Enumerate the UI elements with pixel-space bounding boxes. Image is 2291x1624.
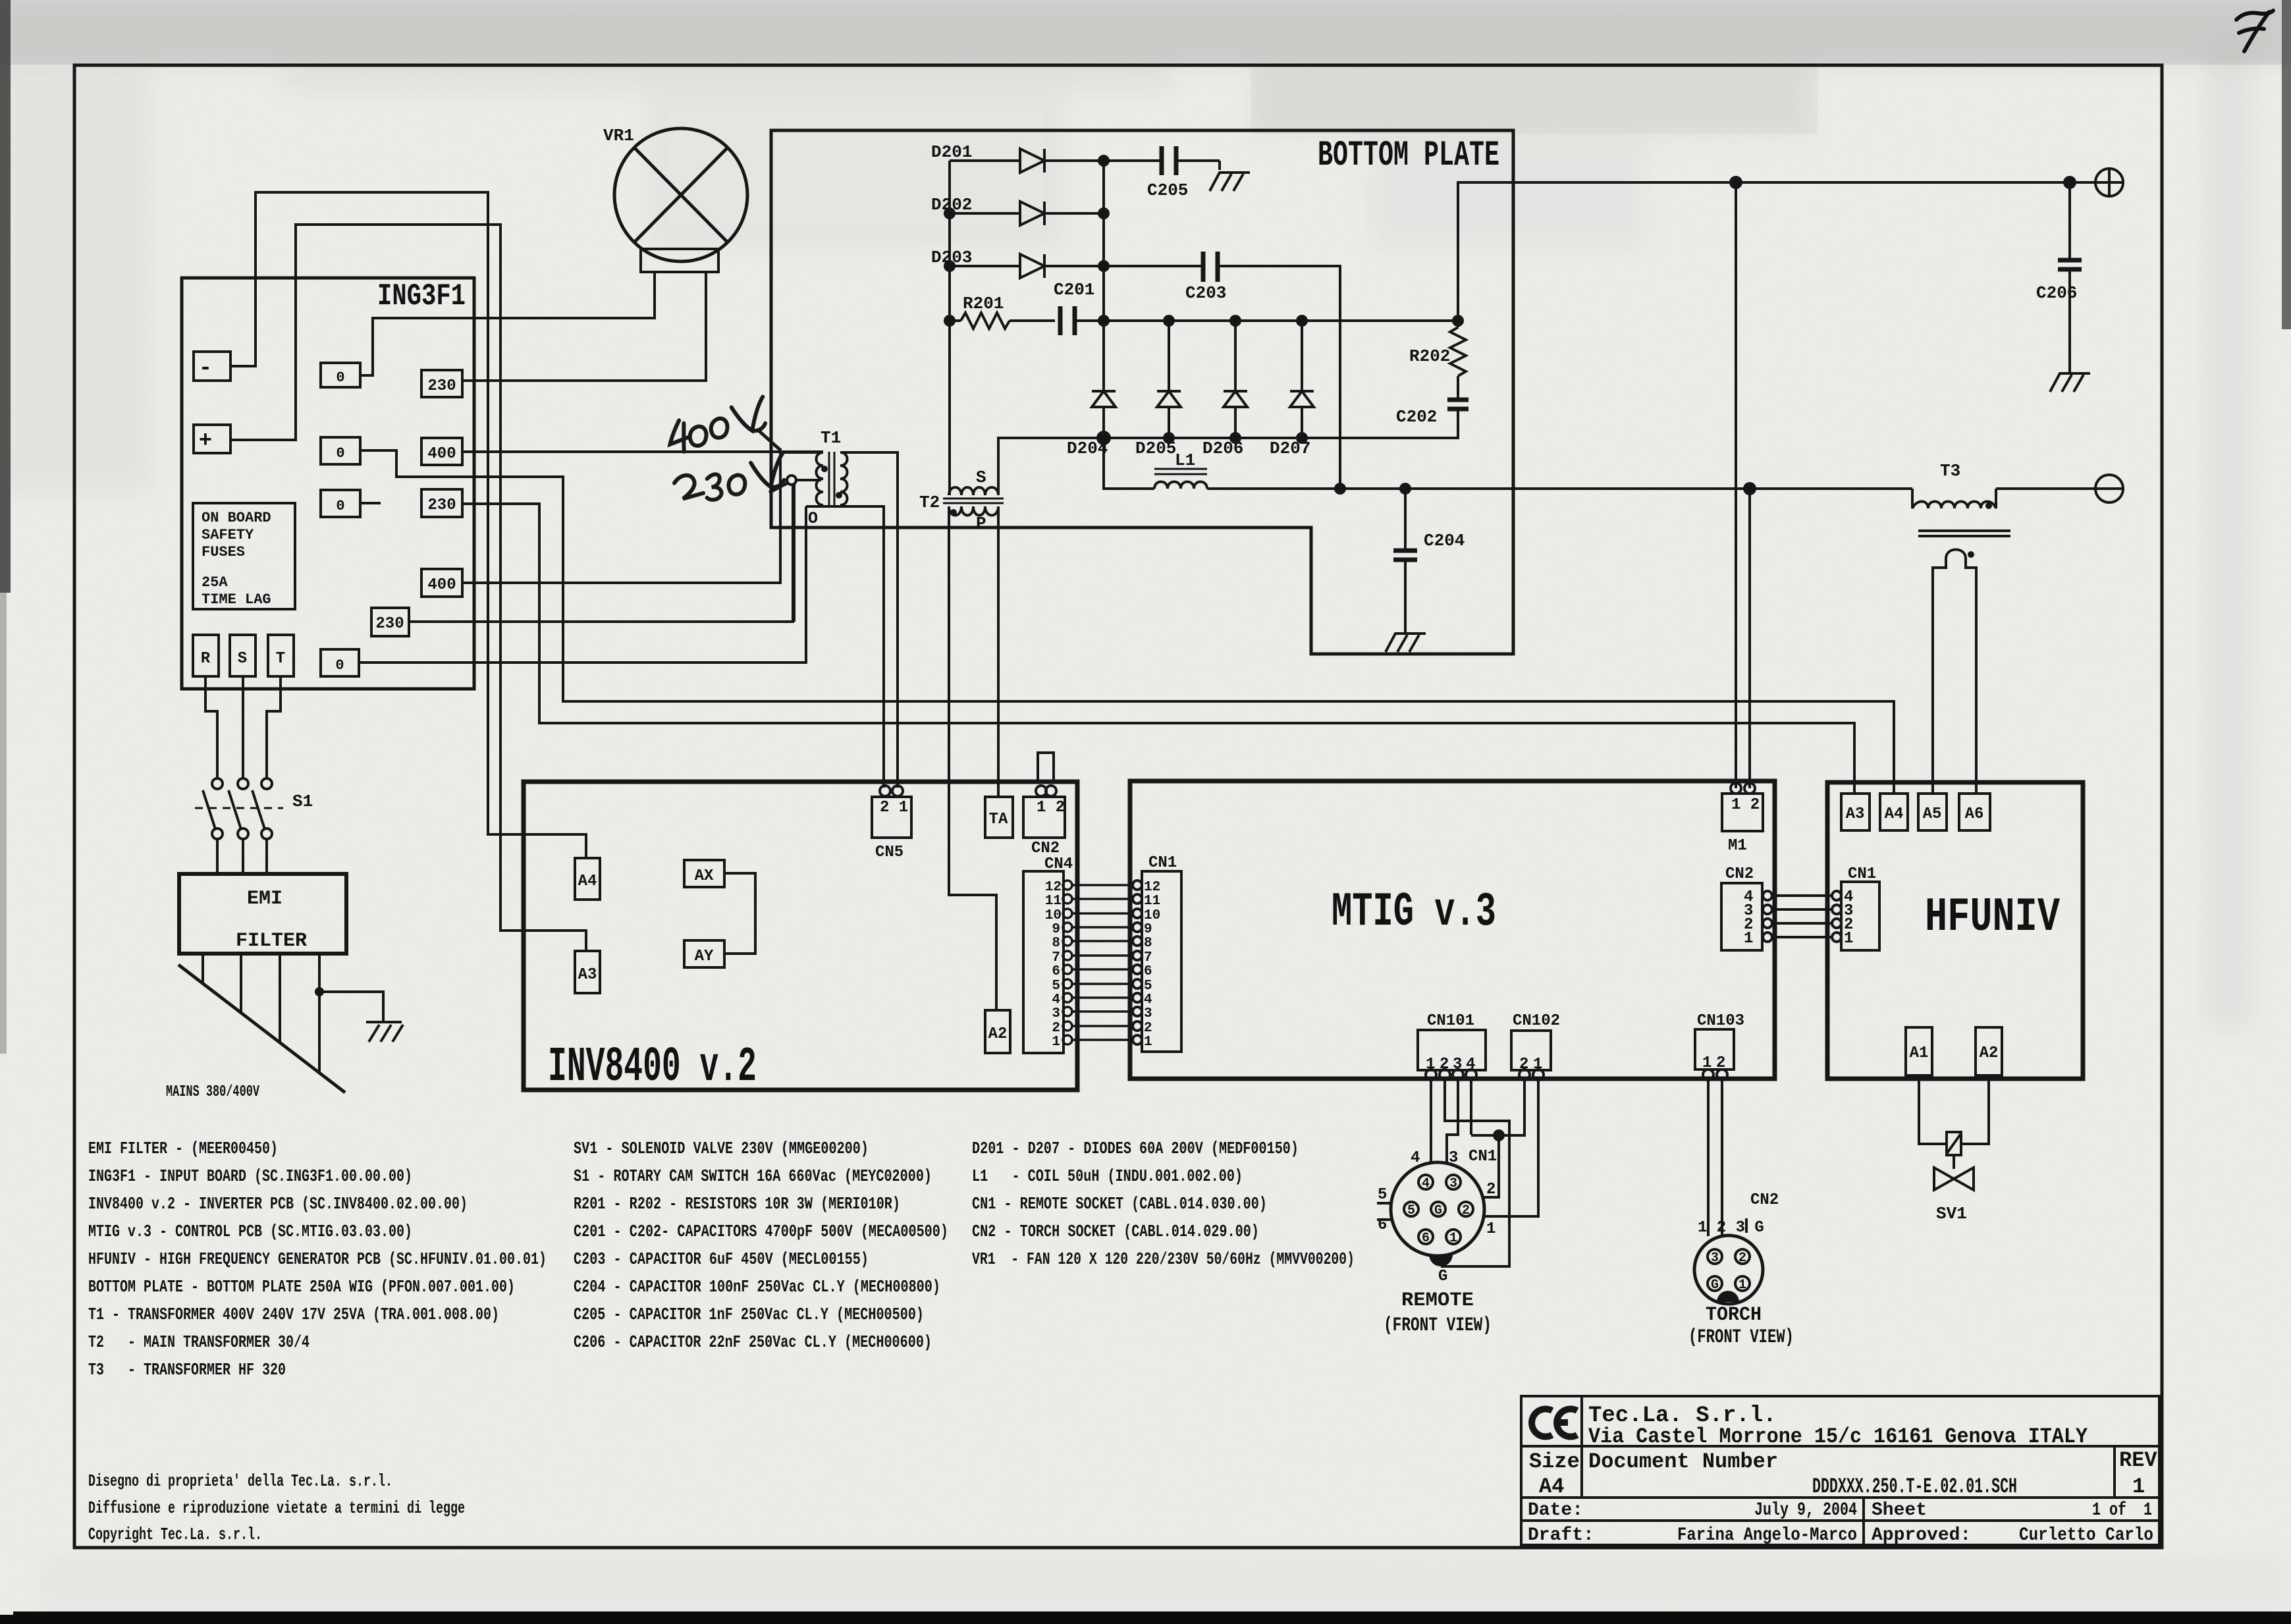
svg-text:TA: TA: [989, 811, 1008, 828]
svg-text:C204 - CAPACITOR 100nF 250Vac: C204 - CAPACITOR 100nF 250Vac CL.Y (MECH…: [574, 1277, 940, 1297]
svg-text:3: 3: [1144, 1006, 1152, 1021]
svg-text:3: 3: [1449, 1149, 1458, 1167]
svg-text:1 of 1: 1 of 1: [2092, 1500, 2152, 1521]
svg-text:1: 1: [2132, 1475, 2145, 1499]
svg-text:S1: S1: [292, 792, 313, 811]
svg-text:CN1: CN1: [1148, 854, 1177, 872]
svg-text:MTIG v.3: MTIG v.3: [1332, 885, 1496, 939]
svg-text:2: 2: [1440, 1056, 1449, 1073]
svg-text:R201: R201: [963, 294, 1004, 313]
svg-text:230: 230: [427, 377, 456, 395]
svg-text:1: 1: [1702, 1054, 1712, 1072]
svg-text:C202: C202: [1396, 407, 1437, 427]
svg-text:AY: AY: [695, 948, 714, 965]
svg-text:C206 - CAPACITOR 22nF 250Vac C: C206 - CAPACITOR 22nF 250Vac CL.Y (MECH0…: [574, 1332, 932, 1352]
svg-text:R202: R202: [1409, 346, 1450, 366]
svg-text:DDDXXX.250.T-E.02.01.SCH: DDDXXX.250.T-E.02.01.SCH: [1812, 1475, 2017, 1499]
svg-text:BOTTOM PLATE: BOTTOM PLATE: [1318, 136, 1499, 176]
svg-text:L1 - COIL 50uH (INDU.001.002: L1 - COIL 50uH (INDU.001.002.00): [972, 1166, 1243, 1186]
svg-text:6: 6: [1052, 964, 1060, 979]
svg-text:0: 0: [336, 445, 344, 462]
svg-text:3: 3: [1453, 1056, 1462, 1073]
svg-text:M1: M1: [1728, 837, 1747, 855]
svg-text:INV8400 v.2: INV8400 v.2: [548, 1040, 757, 1095]
svg-text:MTIG v.3 - CONTROL PCB (SC.MTI: MTIG v.3 - CONTROL PCB (SC.MTIG.03.03.00…: [88, 1222, 412, 1241]
svg-text:4: 4: [1052, 992, 1060, 1008]
svg-text:(FRONT VIEW): (FRONT VIEW): [1384, 1314, 1492, 1337]
svg-text:9: 9: [1144, 922, 1152, 937]
svg-text:ING3F1 - INPUT BOARD (SC.ING3F: ING3F1 - INPUT BOARD (SC.ING3F1.00.00.00…: [88, 1166, 412, 1186]
svg-text:EMI: EMI: [247, 888, 283, 910]
svg-text:1 2: 1 2: [1037, 799, 1065, 817]
svg-text:ING3F1: ING3F1: [377, 279, 466, 313]
svg-text:11: 11: [1144, 894, 1160, 909]
svg-text:Copyright Tec.La. s.r.l.: Copyright Tec.La. s.r.l.: [88, 1525, 262, 1544]
svg-text:G: G: [1438, 1268, 1447, 1286]
svg-text:C205: C205: [1147, 180, 1188, 200]
svg-text:FILTER: FILTER: [236, 930, 307, 952]
svg-text:A1: A1: [1910, 1044, 1929, 1062]
svg-text:1: 1: [1144, 1035, 1152, 1050]
svg-text:R: R: [201, 650, 211, 668]
svg-text:VR1: VR1: [603, 126, 634, 146]
svg-text:A2: A2: [1980, 1044, 1999, 1062]
svg-text:-: -: [199, 356, 212, 381]
svg-text:C201: C201: [1054, 280, 1094, 300]
svg-text:+: +: [199, 429, 212, 454]
svg-text:2: 2: [1519, 1056, 1528, 1073]
svg-text:T: T: [276, 650, 285, 668]
svg-text:10: 10: [1144, 908, 1160, 923]
svg-text:D201: D201: [931, 142, 972, 162]
svg-text:CN1: CN1: [1469, 1148, 1497, 1166]
svg-text:Approved:: Approved:: [1872, 1525, 1971, 1546]
svg-text:C206: C206: [2036, 283, 2077, 303]
svg-text:C205 - CAPACITOR 1nF 250Vac CL: C205 - CAPACITOR 1nF 250Vac CL.Y (MECH00…: [574, 1305, 924, 1324]
svg-text:1: 1: [1052, 1035, 1060, 1050]
svg-text:230: 230: [375, 615, 404, 633]
svg-text:R201 - R202 - RESISTORS 10R 3W: R201 - R202 - RESISTORS 10R 3W (MERI010R…: [574, 1194, 900, 1214]
svg-text:A5: A5: [1923, 805, 1942, 823]
svg-text:Curletto Carlo: Curletto Carlo: [2019, 1525, 2153, 1546]
svg-text:7: 7: [1052, 950, 1060, 965]
svg-text:4: 4: [1466, 1056, 1475, 1073]
svg-text:1: 1: [1486, 1220, 1496, 1238]
svg-text:2: 2: [1738, 1251, 1746, 1266]
svg-text:2: 2: [1144, 1021, 1152, 1036]
svg-text:10: 10: [1045, 908, 1062, 923]
svg-text:12: 12: [1144, 880, 1160, 895]
svg-text:(FRONT VIEW): (FRONT VIEW): [1688, 1326, 1794, 1349]
svg-text:HFUNIV: HFUNIV: [1925, 890, 2061, 944]
svg-text:2: 2: [1716, 1054, 1725, 1072]
svg-text:6: 6: [1378, 1216, 1387, 1234]
svg-text:6: 6: [1144, 964, 1152, 979]
svg-text:1 2 3 G: 1 2 3 G: [1698, 1219, 1764, 1237]
svg-text:T1: T1: [821, 428, 841, 448]
svg-text:11: 11: [1045, 894, 1062, 909]
svg-text:A3: A3: [578, 966, 597, 984]
svg-text:1: 1: [1449, 1231, 1457, 1246]
svg-text:MAINS 380/400V: MAINS 380/400V: [166, 1083, 259, 1101]
svg-text:CN4: CN4: [1044, 855, 1073, 873]
svg-text:CN2: CN2: [1750, 1191, 1779, 1209]
svg-text:EMI FILTER - (MEER00450): EMI FILTER - (MEER00450): [88, 1139, 278, 1158]
svg-text:A4: A4: [1539, 1475, 1564, 1499]
svg-text:T2 - MAIN TRANSFORMER 30/4: T2 - MAIN TRANSFORMER 30/4: [88, 1332, 310, 1352]
svg-text:1: 1: [1744, 930, 1753, 948]
svg-text:Disegno di proprieta' della Te: Disegno di proprieta' della Tec.La. s.r.…: [88, 1471, 392, 1491]
svg-text:T3 - TRANSFORMER HF 320: T3 - TRANSFORMER HF 320: [88, 1360, 286, 1380]
svg-text:5: 5: [1378, 1186, 1387, 1204]
svg-text:L1: L1: [1175, 450, 1195, 470]
svg-text:9: 9: [1052, 922, 1060, 937]
svg-text:C203 - CAPACITOR 6uF 450V (MEC: C203 - CAPACITOR 6uF 450V (MECL00155): [574, 1249, 869, 1269]
svg-text:6: 6: [1422, 1231, 1430, 1246]
svg-text:G: G: [1434, 1203, 1442, 1218]
svg-text:CN1: CN1: [1848, 865, 1876, 883]
svg-text:O: O: [808, 509, 818, 528]
svg-text:T2: T2: [919, 493, 940, 512]
svg-text:25A: 25A: [202, 574, 228, 591]
svg-text:2: 2: [1462, 1203, 1470, 1218]
svg-text:8: 8: [1144, 936, 1152, 951]
svg-text:1 2: 1 2: [1731, 796, 1760, 814]
svg-text:Draft:: Draft:: [1528, 1525, 1594, 1546]
svg-text:VR1 - FAN 120 X 120 220/230V: VR1 - FAN 120 X 120 220/230V 50/60Hz (MM…: [972, 1249, 1355, 1269]
svg-text:REV: REV: [2119, 1448, 2157, 1473]
svg-text:HFUNIV - HIGH FREQUENCY GENERA: HFUNIV - HIGH FREQUENCY GENERATOR PCB (S…: [88, 1249, 547, 1269]
svg-text:8: 8: [1052, 936, 1060, 951]
svg-text:2: 2: [1486, 1181, 1496, 1199]
svg-text:P: P: [976, 514, 986, 533]
svg-text:1: 1: [1738, 1278, 1746, 1293]
svg-text:3: 3: [1711, 1251, 1719, 1266]
svg-text:12: 12: [1045, 880, 1062, 895]
svg-text:400: 400: [427, 576, 456, 594]
svg-text:T3: T3: [1940, 461, 1960, 481]
svg-text:CN102: CN102: [1513, 1012, 1560, 1030]
svg-text:Diffusione e riproduzione viet: Diffusione e riproduzione vietate a term…: [88, 1498, 465, 1518]
svg-text:5: 5: [1407, 1203, 1415, 1218]
svg-text:S: S: [976, 468, 986, 487]
svg-text:ON BOARD: ON BOARD: [202, 510, 271, 526]
svg-text:July 9, 2004: July 9, 2004: [1754, 1500, 1857, 1521]
svg-text:S1 - ROTARY CAM SWITCH 16A 660: S1 - ROTARY CAM SWITCH 16A 660Vac (MEYC0…: [574, 1166, 932, 1186]
svg-text:INV8400 v.2 - INVERTER PCB (SC: INV8400 v.2 - INVERTER PCB (SC.INV8400.0…: [88, 1194, 468, 1214]
svg-text:2: 2: [1052, 1021, 1060, 1036]
svg-text:CN1 - REMOTE SOCKET (CABL.014.: CN1 - REMOTE SOCKET (CABL.014.030.00): [972, 1194, 1267, 1214]
svg-text:SAFETY: SAFETY: [202, 527, 254, 543]
svg-text:CN2: CN2: [1031, 840, 1060, 857]
svg-text:C201 - C202- CAPACITORS 4700pF: C201 - C202- CAPACITORS 4700pF 500V (MEC…: [574, 1222, 948, 1241]
svg-text:D201 - D207 - DIODES 60A 200V: D201 - D207 - DIODES 60A 200V (MEDF00150…: [972, 1139, 1299, 1158]
svg-text:SV1: SV1: [1936, 1204, 1967, 1224]
svg-text:A4: A4: [578, 873, 597, 890]
svg-text:Sheet: Sheet: [1872, 1500, 1927, 1521]
svg-text:1: 1: [1533, 1056, 1542, 1073]
svg-text:400: 400: [427, 445, 456, 463]
svg-text:CN5: CN5: [875, 844, 903, 861]
svg-text:G: G: [1711, 1278, 1719, 1293]
svg-text:Date:: Date:: [1528, 1500, 1583, 1521]
svg-text:TORCH: TORCH: [1706, 1304, 1762, 1326]
svg-text:FUSES: FUSES: [202, 544, 245, 560]
svg-text:1: 1: [1426, 1056, 1435, 1073]
svg-text:0: 0: [336, 498, 344, 514]
svg-text:T1 - TRANSFORMER 400V 240V 17V: T1 - TRANSFORMER 400V 240V 17V 25VA (TRA…: [88, 1305, 499, 1324]
svg-text:5: 5: [1052, 979, 1060, 994]
svg-text:C204: C204: [1424, 531, 1465, 551]
svg-text:BOTTOM PLATE - BOTTOM PLATE 25: BOTTOM PLATE - BOTTOM PLATE 250A WIG (PF…: [88, 1277, 515, 1297]
svg-text:Size: Size: [1529, 1449, 1580, 1474]
svg-text:7: 7: [1144, 950, 1152, 965]
svg-text:0: 0: [335, 657, 344, 674]
svg-text:CN101: CN101: [1427, 1012, 1474, 1030]
svg-text:S: S: [238, 650, 247, 668]
svg-text:CN2: CN2: [1725, 865, 1754, 883]
svg-text:Document Number: Document Number: [1588, 1449, 1778, 1474]
svg-text:5: 5: [1144, 979, 1152, 994]
svg-text:TIME LAG: TIME LAG: [202, 591, 271, 608]
svg-text:3: 3: [1052, 1006, 1060, 1021]
svg-text:1: 1: [1844, 930, 1853, 948]
svg-text:3: 3: [1449, 1176, 1457, 1191]
svg-text:Via Castel Morrone 15/c 16161: Via Castel Morrone 15/c 16161 Genova ITA…: [1588, 1424, 2088, 1449]
svg-text:REMOTE: REMOTE: [1401, 1289, 1474, 1312]
svg-text:A6: A6: [1965, 805, 1984, 823]
svg-text:2 1: 2 1: [880, 799, 908, 817]
svg-text:230: 230: [427, 497, 456, 514]
svg-text:CN2 - TORCH SOCKET (CABL.014.0: CN2 - TORCH SOCKET (CABL.014.029.00): [972, 1222, 1259, 1241]
svg-text:Farina Angelo-Marco: Farina Angelo-Marco: [1677, 1525, 1857, 1546]
svg-text:4: 4: [1411, 1149, 1420, 1167]
svg-text:A3: A3: [1846, 805, 1865, 823]
svg-text:4: 4: [1144, 992, 1152, 1008]
svg-text:A2: A2: [988, 1025, 1008, 1043]
svg-text:C203: C203: [1185, 283, 1226, 303]
svg-text:4: 4: [1422, 1176, 1430, 1191]
svg-text:SV1 - SOLENOID VALVE 230V (MMG: SV1 - SOLENOID VALVE 230V (MMGE00200): [574, 1139, 869, 1158]
svg-text:AX: AX: [695, 867, 714, 885]
svg-text:A4: A4: [1885, 805, 1904, 823]
svg-text:0: 0: [336, 369, 344, 386]
svg-text:CN103: CN103: [1697, 1012, 1744, 1030]
